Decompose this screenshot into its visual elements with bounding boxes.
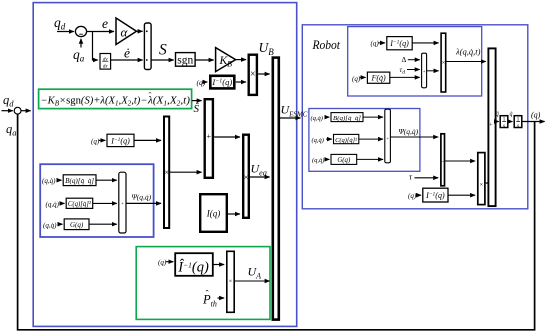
svg-text:I(q): I(q) [206,208,221,218]
wire tau to sum S2 [415,177,439,179]
node UB [259,40,275,57]
wire feedback loop [18,114,535,330]
wire I2 to product B1 [134,139,161,141]
svg-text:ė: ė [124,46,130,61]
svg-text:(q): (q) [158,259,167,267]
wire integrator1 to integrator2 [508,121,513,123]
wire (q) to I4 [378,42,385,44]
wire (q) to I1 [204,81,208,83]
svg-text:(q,q̇): (q,q̇) [312,157,324,164]
product bar P2 [441,33,446,92]
wire KB to product P1 [236,59,246,61]
robot outer blue box [302,25,528,209]
wire B3 to mux M5 [249,176,270,178]
wire (q) to I5 [416,194,422,196]
node e [102,16,108,31]
wire Shat from formula to sum B2 [192,100,202,102]
wire G to mux M2 [89,223,117,225]
wire alpha to mux M1 [137,30,143,32]
svg-text:q̈: q̈ [496,112,499,118]
svg-text:I−1(q): I−1(q) [211,77,232,87]
svg-text:(q,q̇): (q,q̇) [42,177,56,185]
sum bar B5 [488,48,495,206]
wire I5 to product P3 [448,194,475,196]
block Ihat^-1(q) [175,253,213,276]
wire Pth to product P4 [218,297,225,299]
svg-text:+: + [489,122,493,129]
controller outer blue box [33,3,297,327]
robot lambda blue box [348,27,482,96]
svg-text:Î−1(q): Î−1(q) [177,259,209,276]
controller Psi blue box [40,164,153,237]
svg-text:dx: dx [103,64,109,69]
wire B to mux M4 [363,116,383,118]
block G(q) [64,219,89,230]
wire e from S1 to gain alpha [87,31,114,33]
node Ueq [251,162,267,178]
svg-text:G(q): G(q) [70,221,84,229]
wire (q) to I3 [166,261,174,263]
svg-text:Ψ(q,q̇): Ψ(q,q̇) [399,127,419,136]
node (q,qdot) robot row2 [312,137,324,144]
wire UESMC to robot box [279,117,300,119]
wire B2 to product B3 [214,136,240,138]
wire P2 to sum B5 [446,61,486,63]
wire S2 to product P3 [445,160,475,162]
svg-text:λ(q,q̇,t): λ(q,q̇,t) [455,47,481,57]
node (q) for I4 [371,39,380,47]
svg-text:(q): (q) [352,75,361,83]
svg-text:C(q)[q̇]²: C(q)[q̇]² [68,201,92,208]
svg-text:Δ: Δ [402,55,407,64]
mux M1 [144,23,151,70]
svg-text:S: S [159,42,167,59]
wire tau_d to mux M3 [407,69,420,71]
mux M2 [119,172,126,233]
node S [159,42,167,59]
svg-text:s: s [517,123,519,129]
wire M3 to product P2 [427,70,439,72]
robot Psi blue box [309,109,420,172]
svg-text:(q,q̇): (q,q̇) [43,222,57,230]
wire P4 to mux M5 [235,280,270,282]
product bar P3 [478,153,485,205]
svg-text:I−1(q): I−1(q) [389,39,409,48]
svg-text:B(q)[q̇ q̇]: B(q)[q̇ q̇] [333,115,362,122]
svg-text:e: e [102,16,108,31]
sum bar B2 [205,99,213,178]
svg-text:λ(X1,X2,t): λ(X1,X2,t) [147,95,191,107]
wire M4 to sum S2 [390,136,438,138]
wire row1 to B block [58,179,62,181]
node qd inner [54,15,66,32]
node (q) for I1 [197,78,206,87]
node Pth hat [202,288,217,308]
svg-text:(q): (q) [531,111,541,120]
node (q,qdot) robot row1 [311,115,323,122]
svg-text:dy: dy [103,57,109,62]
svg-text:I−1(q): I−1(q) [425,191,445,200]
wire q output [522,121,545,123]
wire P1 to mux M5 [258,73,270,75]
node (q,qdot) row1 [42,177,56,185]
sum bar S2 [441,134,445,186]
node (q) for I5 [408,192,417,200]
node (q) for I3 [158,259,167,267]
block I^-1(q) I2 [107,134,134,146]
block B(q) [63,175,96,186]
derivative block du/dt [100,54,111,70]
node UESMC [281,103,308,119]
block C(q) [66,198,93,208]
wire B1 to sum B2 [170,171,202,173]
mux M3 [422,53,427,88]
svg-text:I−1(q): I−1(q) [110,136,130,145]
svg-text:(q,q̇): (q,q̇) [312,137,324,144]
svg-text:+: + [207,132,212,141]
svg-text:1: 1 [503,117,506,123]
wire B5 to integrator 1 [496,121,499,123]
node (q) output [531,111,541,120]
svg-text:(q,q̇): (q,q̇) [46,200,60,208]
svg-text:ˆ: ˆ [206,288,209,298]
node qa outer [6,122,17,138]
wire B to mux M2 [96,179,117,181]
wire C to mux M2 [93,202,117,204]
wire qa up into S1 [80,39,82,48]
node UA [248,265,262,281]
node tau_d [400,65,406,76]
block I(q) [200,194,227,232]
mux M4 [385,109,391,163]
svg-text:G(q): G(q) [337,157,351,164]
node qa inner [73,47,85,64]
node tau [409,171,413,181]
svg-text:×: × [244,172,249,182]
svg-text:×: × [442,59,446,66]
wire (q) to I2 [99,139,106,141]
product P1 [249,55,257,95]
summing junction S1 [75,26,86,36]
node Psi robot [399,127,419,136]
label Robot [312,38,341,52]
svg-text:(q): (q) [408,192,417,200]
integrator 1/s first [500,116,508,129]
wire Delta to mux M3 [408,59,420,61]
svg-text:F(q̇): F(q̇) [370,74,386,83]
wire edot to mux M1 [111,59,143,61]
integrator 1/s second [514,116,522,129]
wire row2 to C block robot [326,138,332,140]
node Delta [402,55,407,64]
svg-text:Ψ(q,q̇): Ψ(q,q̇) [132,193,152,202]
wire C to mux M4 [359,138,383,140]
wire (q) to F [360,76,366,78]
wire row3 to G block [59,223,63,225]
node qddot [496,112,499,118]
node (q,qdot) row2 [46,200,60,208]
svg-text:×: × [250,69,256,80]
svg-text:C(q)[q̇]²: C(q)[q̇]² [335,137,357,144]
block I^-1(q) I5 [423,188,448,202]
svg-text:s: s [503,123,505,129]
node (q,qdot) robot row3 [312,157,324,164]
wire row2 to C block [61,202,65,204]
svg-text:1: 1 [517,117,520,123]
block C(q) robot [334,134,359,143]
svg-text:q̇: q̇ [510,112,513,118]
wire P3 to sum B5 [486,182,488,184]
node Psi(q,qdot) [132,193,152,202]
wire I4 to product P2 [412,42,438,44]
block I^-1(q) thick I1 [210,76,234,89]
svg-text:B(q)[q̇ q̇]: B(q)[q̇ q̇] [65,178,94,185]
mux M5 output bar [273,58,279,320]
product bar P4 [227,251,234,312]
wire G to mux M4 [357,158,383,160]
block G(q) robot [331,154,357,164]
node lambda(q,qdot,t) [455,47,481,57]
node (q,qdot) row3 [43,222,57,230]
svg-text:Robot: Robot [312,38,341,52]
svg-text:Ŝ: Ŝ [194,103,200,115]
block F(qdot) [367,72,389,83]
block sgn [176,53,196,67]
product bar B1 [164,117,169,229]
wire I3 to product P4 [213,264,224,266]
wire sgn to gain KB [195,59,214,61]
block B(q) robot [331,113,363,122]
svg-text:+: + [121,202,124,207]
svg-text:×: × [229,279,232,285]
svg-text:sgn: sgn [177,54,193,66]
svg-text:×: × [164,168,169,177]
wire qd into outer sum [2,110,13,112]
green UA box [136,247,270,320]
node qdot mid [510,112,513,118]
node edot [124,46,130,61]
wire S from M1 to sgn [151,59,174,61]
svg-text:ˆ: ˆ [149,90,152,100]
svg-text:(q,q̇): (q,q̇) [311,115,323,122]
svg-text:×: × [479,182,483,189]
node (q) for I2 [91,138,100,146]
wire I(q) to product B3 [228,213,240,215]
svg-text:(q): (q) [91,138,100,146]
wire qd into sum S1 [57,31,74,33]
summing junction S0 [14,107,21,114]
product bar B3 [243,135,249,218]
node (q) for F [352,75,361,83]
gain alpha [116,18,137,45]
formula text [41,90,191,107]
green formula box [39,89,192,108]
wire S0 to controller box [21,110,30,112]
node qd outer [3,93,14,109]
node Shat [194,103,200,115]
gain KB [216,48,236,72]
svg-text:−: − [441,160,445,166]
wire I1 to product P1 [236,81,246,83]
wire row3 to G block robot [327,158,330,160]
wire F to mux M3 [390,76,420,78]
svg-text:α: α [121,25,129,40]
wire M2 to product B1 [126,202,161,204]
wire e branch down to derivative [93,32,98,61]
block I^-1(q) I4 [387,37,412,50]
wire row1 to B block robot [325,116,329,118]
